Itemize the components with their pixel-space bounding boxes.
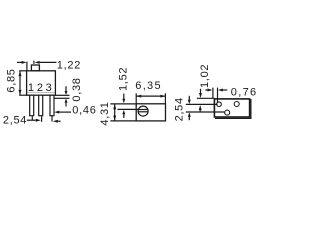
dimension 0,76 left arrow (218, 89, 223, 92)
dimension 2,54 down arrow (188, 96, 190, 100)
svg-text:4,31: 4,31 (99, 101, 111, 125)
screw slot extension line (118, 108, 139, 110)
pin 2 extension line (41, 116, 43, 122)
dimension 4,31 down arrow (113, 116, 116, 121)
dimension 1,52 down arrow (123, 94, 125, 99)
front view top tab (31, 65, 39, 71)
top view right shadow edge (250, 99, 252, 119)
svg-text:1: 1 (28, 82, 35, 94)
pin 3 extension stub (51, 116, 53, 122)
dimension 6,85 line (19, 71, 21, 95)
dimension 0,38 upper extension (55, 94, 69, 96)
side view body (136, 104, 165, 121)
dimension 0,38 up arrow (65, 99, 68, 103)
dimension 6,85 top extension (19, 70, 26, 72)
dimension 6,35 line (136, 95, 165, 97)
dimension 1,22 left arrow (17, 61, 22, 63)
hole 1 center extension (186, 103, 218, 105)
svg-text:1,02: 1,02 (199, 64, 211, 88)
dimension 2,54 line (27, 119, 36, 121)
pin 2 (39, 95, 43, 116)
dimension 6,35 left arrow (136, 95, 141, 98)
dimension 6,35 left extension (135, 93, 137, 104)
dimension 1,22 extension line body left (26, 62, 28, 71)
dimension 0,76 right arrow (205, 89, 207, 91)
hole 1 (217, 102, 222, 107)
dimension 1,52 up arrow (122, 110, 125, 115)
svg-text:0,46: 0,46 (72, 105, 96, 117)
dimension 2,54 right arrowhead (36, 119, 41, 122)
dimension 2,54 up arrow (188, 112, 191, 117)
side view screw (138, 106, 148, 116)
svg-text:1,22: 1,22 (57, 60, 81, 72)
hole 3 center extension (186, 111, 225, 113)
dimension 6,35 right extension (164, 93, 166, 104)
svg-text:2,54: 2,54 (174, 97, 186, 121)
top view top edge extension (197, 97, 215, 99)
dimension 1,22 tick (33, 61, 35, 64)
dimension 6,85 up arrow (19, 71, 22, 76)
hole 2 (234, 102, 239, 107)
dimension 4,31 top extension (110, 103, 136, 105)
dimension 1,02 down arrow (200, 89, 202, 93)
svg-text:3: 3 (46, 82, 53, 94)
screw slot bottom (138, 111, 148, 113)
front view body (27, 71, 56, 95)
pin 3 left arrow (53, 120, 58, 123)
dimension 4,31 up arrow (113, 104, 116, 109)
dimension 0,76 tick left (212, 88, 214, 99)
dimension 0,38 lower extension (54, 97, 69, 99)
svg-text:1,52: 1,52 (118, 67, 130, 91)
pin 3 (50, 95, 54, 116)
dimension 6,35 right arrow (160, 95, 165, 98)
top view bottom shadow edge (215, 117, 252, 119)
svg-text:0,38: 0,38 (71, 77, 83, 101)
dimension 0,38 down arrow (65, 86, 67, 91)
pin 1 extension stub (31, 116, 33, 120)
svg-text:0,76: 0,76 (231, 86, 256, 98)
dimension 0,76 tick right (217, 88, 219, 103)
svg-text:2: 2 (37, 82, 44, 94)
dimension 6,85 down arrow (19, 90, 22, 95)
dimension 6,85 bottom extension (19, 94, 26, 96)
svg-text:6,35: 6,35 (135, 80, 162, 92)
screw slot top (138, 109, 147, 111)
hole 3 (225, 110, 230, 115)
front view body seam (27, 91, 54, 93)
dimension 4,31 bottom extension (110, 120, 136, 122)
dimension 4,31 line (114, 104, 116, 121)
dimension 0,46 arrow (54, 111, 59, 114)
svg-text:6,85: 6,85 (6, 68, 18, 92)
dimension 1,22 right arrow (35, 61, 40, 64)
svg-text:2,54: 2,54 (3, 115, 27, 127)
top view body (214, 99, 249, 117)
dimension 1,02 up arrow (199, 105, 202, 110)
pin 1 (30, 95, 34, 116)
